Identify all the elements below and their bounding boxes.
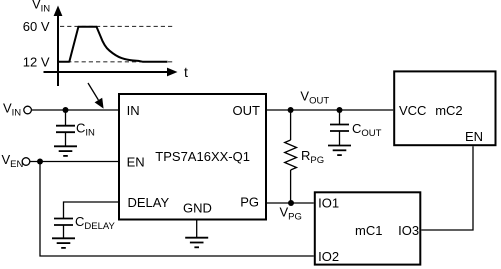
- svg-text:GND: GND: [183, 201, 212, 216]
- svg-text:OUT: OUT: [233, 103, 261, 118]
- svg-text:EN: EN: [465, 129, 483, 144]
- svg-text:t: t: [184, 64, 188, 80]
- svg-text:mC2: mC2: [435, 103, 462, 118]
- svg-text:DELAY: DELAY: [128, 195, 170, 210]
- svg-text:IO1: IO1: [318, 195, 339, 210]
- svg-text:PG: PG: [240, 194, 259, 209]
- svg-text:IO3: IO3: [398, 223, 419, 238]
- svg-text:IN: IN: [127, 103, 140, 118]
- svg-text:12 V: 12 V: [23, 54, 50, 69]
- svg-text:VCC: VCC: [399, 103, 426, 118]
- svg-text:IO2: IO2: [318, 249, 339, 264]
- svg-text:60 V: 60 V: [23, 19, 50, 34]
- svg-text:EN: EN: [127, 154, 145, 169]
- svg-text:TPS7A16XX-Q1: TPS7A16XX-Q1: [155, 149, 250, 164]
- svg-text:mC1: mC1: [355, 223, 382, 238]
